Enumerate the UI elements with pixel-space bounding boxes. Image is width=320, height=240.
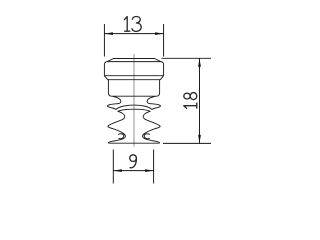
neck sides and bottom crease [108,80,159,97]
dim text 9 [130,155,137,162]
cap lower band with chamfered corners [104,76,163,80]
top lip of fitting [114,58,155,60]
dim 9 right extension line [153,150,155,184]
arrow 18 top [198,59,201,67]
arrow 13 left [105,32,113,35]
dim text 13 : digit 3 [132,17,141,32]
dim 13 left extension line [103,24,105,57]
dim 9 line [113,170,153,172]
dim 9 left extension line [112,150,114,184]
bottom lip left hook [118,134,123,139]
dim 18 line [199,58,201,143]
fold 2 pleats, bottom lip and bottom edge [108,111,160,143]
arrow 13 right [155,32,163,35]
dim 13 right extension line [163,24,165,57]
centerline [133,54,135,147]
dim 18 bottom extension line [163,142,211,144]
dim text 18 (rotated) [184,93,197,109]
fold 1 pleats and upper arc [108,96,161,109]
arrow 9 right [145,169,153,172]
lip left chamfer [107,59,113,62]
dim 13 line [104,33,163,35]
lip right chamfer [155,59,161,62]
dim text 13 : digit 1 [125,17,130,32]
arrow 9 left [114,169,122,172]
bottom lip right hook [144,134,149,139]
arrow 18 bottom [198,135,201,143]
fold 1 lower arc [118,109,150,111]
cap body (rounded rect upper part) [104,62,163,76]
dim 18 top extension line [162,57,212,59]
